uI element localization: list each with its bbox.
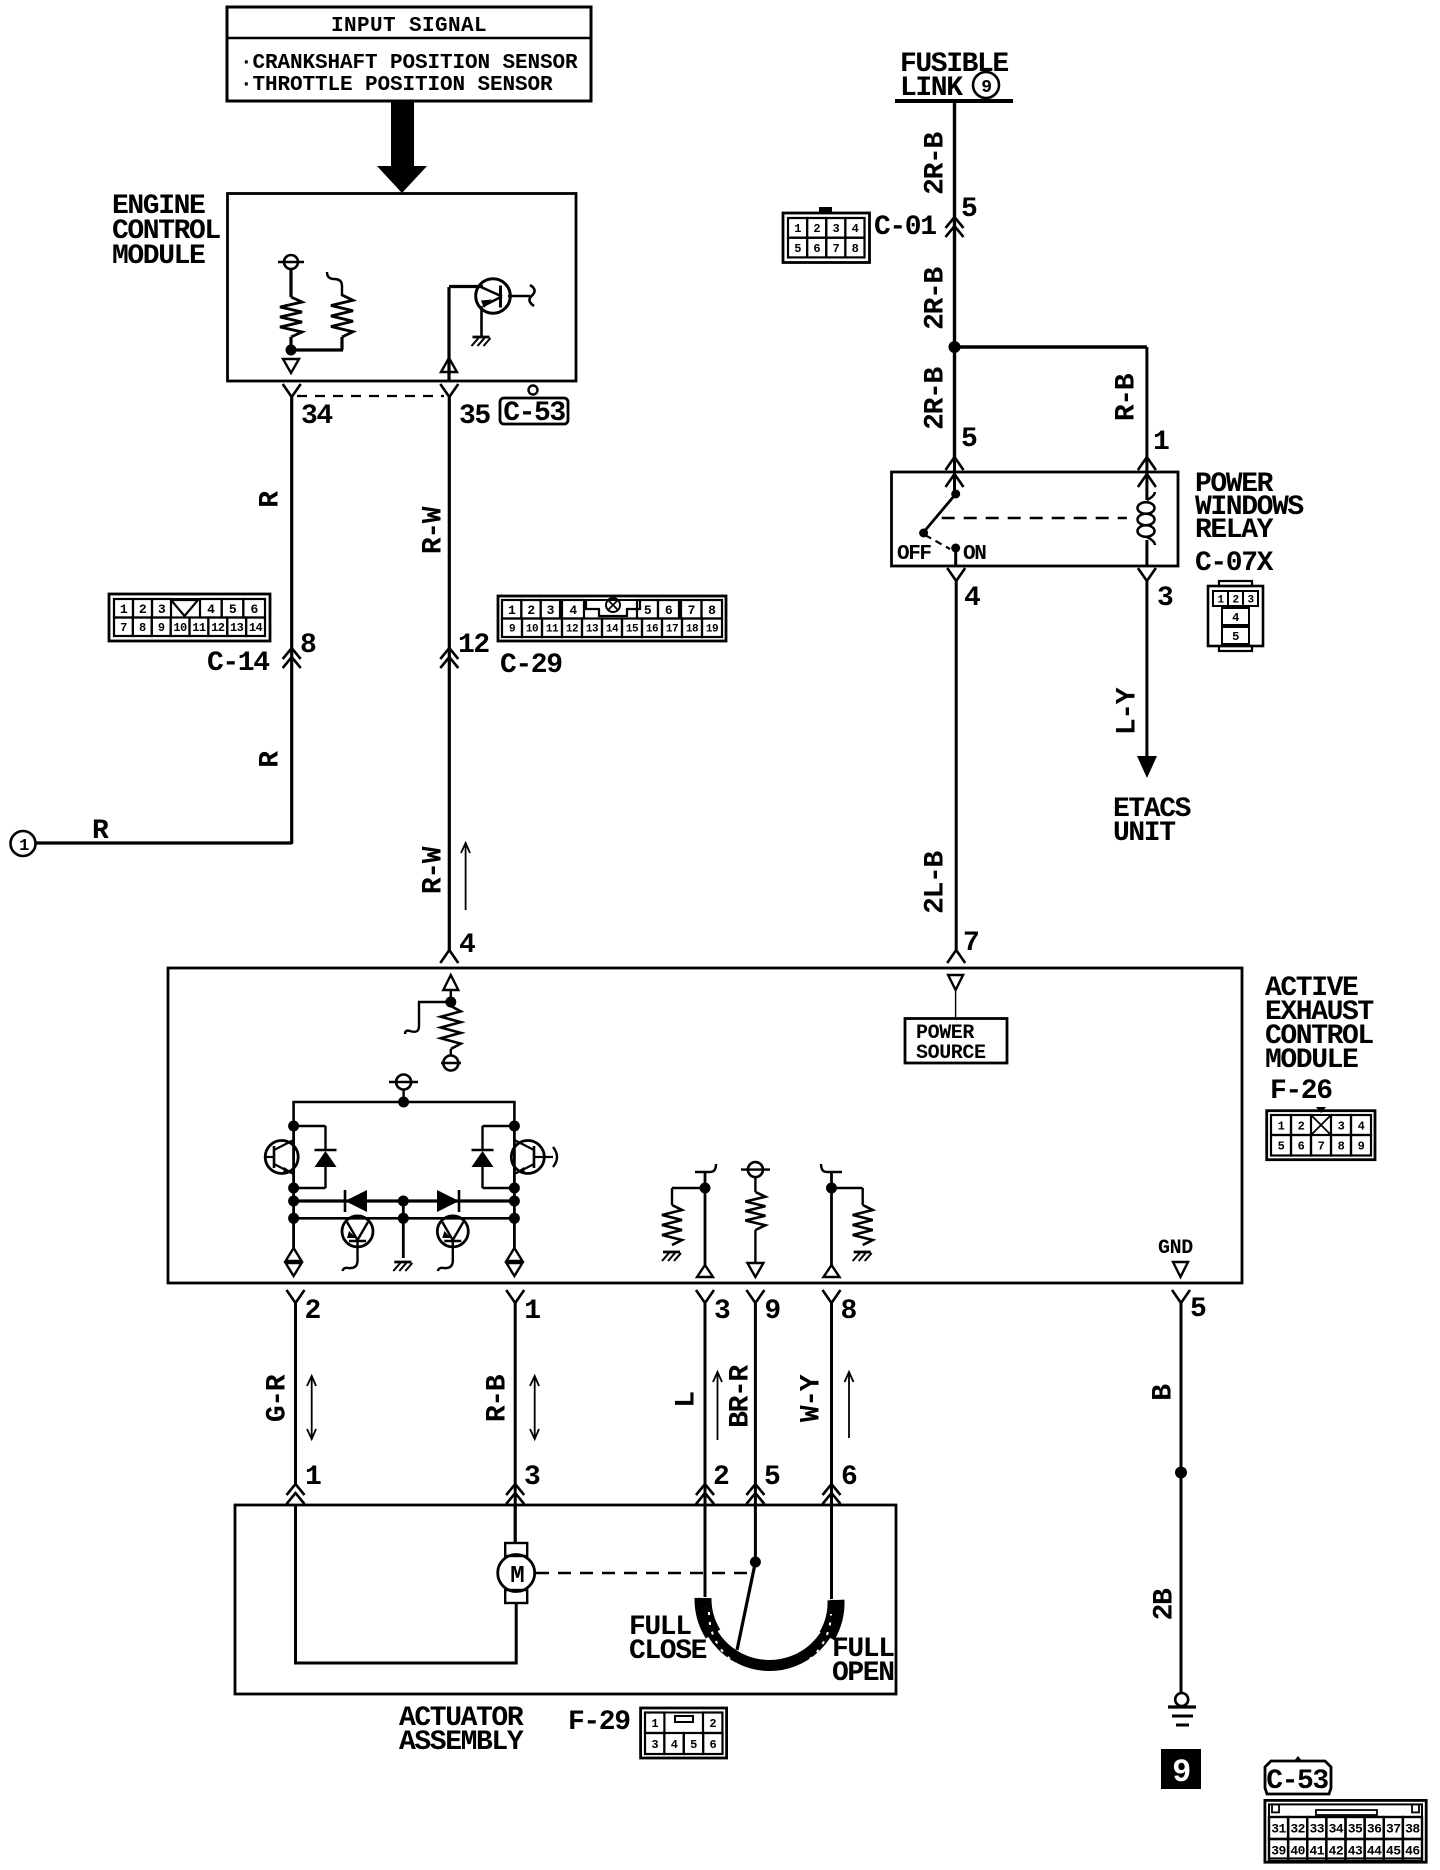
svg-text:5: 5 xyxy=(229,602,237,617)
connector badge C-53 bottom xyxy=(1265,1756,1331,1797)
svg-text:13: 13 xyxy=(586,624,599,636)
svg-text:C-07X: C-07X xyxy=(1195,548,1274,579)
double arrow G-R xyxy=(307,1376,316,1439)
svg-text:10: 10 xyxy=(526,624,538,636)
svg-text:BR-R: BR-R xyxy=(726,1365,757,1428)
svg-text:3: 3 xyxy=(832,222,839,236)
svg-text:12: 12 xyxy=(211,621,225,635)
svg-text:UNIT: UNIT xyxy=(1113,818,1175,849)
pin 5 fork into relay xyxy=(946,424,978,470)
svg-text:7: 7 xyxy=(120,621,127,635)
diode rail xyxy=(294,1199,515,1202)
svg-text:·CRANKSHAFT POSITION SENSOR: ·CRANKSHAFT POSITION SENSOR xyxy=(240,52,578,75)
svg-text:OPEN: OPEN xyxy=(832,1658,894,1689)
svg-text:1: 1 xyxy=(1217,594,1224,606)
node left mid xyxy=(288,1183,299,1194)
wire R horizontal to terminal 1 xyxy=(36,841,292,844)
wire node to ECM R2 xyxy=(289,348,343,351)
diode D2 pointing right xyxy=(437,1190,459,1212)
node right mid xyxy=(509,1183,520,1194)
pin 7 fork into AECM xyxy=(947,928,978,963)
wire up to ECM R2 xyxy=(340,337,343,350)
svg-text:8: 8 xyxy=(852,242,859,256)
svg-text:34: 34 xyxy=(1329,1822,1344,1837)
actuator pin 2 mark xyxy=(696,1462,729,1504)
svg-text:3: 3 xyxy=(714,1296,730,1327)
svg-text:M: M xyxy=(510,1563,524,1590)
node lower rail right xyxy=(509,1213,520,1224)
svg-text:ON: ON xyxy=(963,543,986,566)
svg-text:GND: GND xyxy=(1158,1237,1193,1260)
terminal circle below R1 xyxy=(441,1049,461,1071)
wire L actuator xyxy=(704,1303,707,1597)
label ACTUATOR ASSEMBLY xyxy=(399,1703,524,1758)
wire resistor to node xyxy=(289,337,292,350)
svg-text:9: 9 xyxy=(158,621,165,635)
svg-text:37: 37 xyxy=(1386,1822,1401,1837)
svg-text:4: 4 xyxy=(569,603,577,618)
connector C-01 xyxy=(783,208,870,263)
svg-text:34: 34 xyxy=(301,401,332,432)
label ETACS UNIT xyxy=(1113,794,1191,849)
wire transistor to ground xyxy=(480,306,483,336)
hook top of ECM R2 xyxy=(327,272,342,296)
svg-text:6: 6 xyxy=(813,242,820,256)
svg-text:10: 10 xyxy=(173,621,187,635)
svg-text:4: 4 xyxy=(1358,1119,1365,1133)
wire right leg xyxy=(513,1126,516,1248)
svg-text:F-29: F-29 xyxy=(568,1707,630,1738)
wire R pin34 down xyxy=(290,397,293,844)
AECM pin 8 fork xyxy=(823,1290,857,1327)
actuator pin 3 mark xyxy=(506,1462,540,1504)
big input arrow xyxy=(377,101,427,193)
svg-text:2: 2 xyxy=(709,1717,716,1731)
label GND and triangle xyxy=(1158,1237,1193,1277)
svg-text:13: 13 xyxy=(230,621,244,635)
svg-text:CLOSE: CLOSE xyxy=(629,1636,707,1667)
svg-text:36: 36 xyxy=(1367,1822,1382,1837)
connector mark C-29 pin 12 xyxy=(440,630,489,668)
svg-text:12: 12 xyxy=(458,630,489,661)
svg-text:1: 1 xyxy=(651,1717,658,1731)
svg-text:R: R xyxy=(92,816,109,847)
svg-text:RELAY: RELAY xyxy=(1195,515,1274,546)
wire B ground xyxy=(1180,1303,1183,1693)
svg-text:6: 6 xyxy=(251,602,259,617)
resistor AECM R1 xyxy=(441,1006,461,1049)
svg-text:8: 8 xyxy=(139,621,146,635)
node diode rail right xyxy=(509,1196,520,1207)
svg-text:17: 17 xyxy=(666,624,678,636)
svg-text:2R-B: 2R-B xyxy=(921,132,952,195)
wire G-R xyxy=(294,1303,297,1484)
active exhaust control module box xyxy=(168,968,1242,1283)
AECM pin 3 fork xyxy=(696,1290,730,1327)
wire W-Y actuator xyxy=(830,1303,833,1599)
dashed link pin34-pin35 xyxy=(297,395,444,397)
svg-text:2: 2 xyxy=(1232,594,1238,606)
svg-text:5: 5 xyxy=(690,1738,697,1752)
svg-text:2: 2 xyxy=(713,1462,729,1493)
ground ref 9 black box xyxy=(1162,1750,1200,1791)
dashed motor link xyxy=(536,1572,752,1574)
svg-text:15: 15 xyxy=(626,624,639,636)
svg-text:35: 35 xyxy=(1348,1822,1363,1837)
svg-text:16: 16 xyxy=(646,624,658,636)
node 2R-B branch xyxy=(949,341,961,353)
actuator pin 6 mark xyxy=(823,1462,858,1504)
AECM label xyxy=(1265,973,1373,1076)
left leg output triangles xyxy=(286,1248,302,1276)
transistor AECM QL xyxy=(265,1140,298,1174)
terminal circle 1 xyxy=(11,831,36,856)
AECM pin8 internals xyxy=(821,1164,873,1277)
node lower rail left xyxy=(288,1213,299,1224)
relay pin 4 fork xyxy=(947,568,980,614)
label FULL CLOSE xyxy=(629,1612,707,1667)
svg-text:1: 1 xyxy=(19,837,29,856)
relay pin1 inner mark xyxy=(1138,457,1156,500)
AECM pin3 internals xyxy=(662,1164,716,1277)
svg-text:F-26: F-26 xyxy=(1270,1076,1332,1107)
svg-text:9: 9 xyxy=(509,624,515,636)
connector F-29 xyxy=(641,1708,727,1758)
svg-text:9: 9 xyxy=(1172,1754,1190,1791)
svg-text:L: L xyxy=(672,1392,703,1408)
position sensor arc xyxy=(703,1598,836,1674)
motor M xyxy=(498,1543,535,1603)
svg-text:OFF: OFF xyxy=(897,543,931,566)
svg-text:4: 4 xyxy=(964,583,980,614)
svg-text:7: 7 xyxy=(832,242,839,256)
actuator assembly box xyxy=(235,1505,896,1694)
svg-text:6: 6 xyxy=(709,1738,716,1752)
svg-text:R: R xyxy=(256,751,287,768)
svg-text:4: 4 xyxy=(207,602,215,617)
AECM pin4 entry triangle xyxy=(443,975,458,990)
actuator pin 1 mark xyxy=(287,1462,322,1504)
svg-text:4: 4 xyxy=(852,222,859,236)
transistor AECM QR xyxy=(511,1140,557,1174)
svg-text:8: 8 xyxy=(1338,1140,1345,1154)
svg-text:19: 19 xyxy=(706,624,718,636)
node left upper xyxy=(288,1121,299,1132)
svg-text:5: 5 xyxy=(1278,1140,1285,1154)
svg-text:R-B: R-B xyxy=(1112,373,1143,421)
svg-text:7: 7 xyxy=(1318,1140,1325,1154)
svg-text:2B: 2B xyxy=(1150,1588,1181,1620)
svg-text:2: 2 xyxy=(813,222,820,236)
wire 2R-B from fusible link xyxy=(953,101,956,347)
pin 35 fork xyxy=(440,384,490,432)
engine control module box xyxy=(228,194,577,382)
svg-text:5: 5 xyxy=(1232,630,1239,644)
wire L-Y to ETACS with arrow xyxy=(1137,581,1157,778)
svg-text:G-R: G-R xyxy=(263,1374,294,1422)
AECM pin 9 fork xyxy=(746,1290,780,1327)
svg-text:2L-B: 2L-B xyxy=(921,851,952,914)
svg-text:44: 44 xyxy=(1367,1844,1382,1859)
node lower rail center xyxy=(398,1213,409,1224)
svg-text:5: 5 xyxy=(1190,1294,1206,1325)
arrow up L xyxy=(713,1372,722,1440)
svg-text:R-W: R-W xyxy=(419,506,450,554)
wire R-B actuator xyxy=(514,1303,517,1544)
svg-text:C-53: C-53 xyxy=(1266,1766,1328,1797)
connector mark C-14 pin 8 xyxy=(283,630,316,668)
diode D1 pointing left xyxy=(345,1190,367,1212)
ECM pin 34 triangle xyxy=(283,359,299,373)
svg-text:6: 6 xyxy=(665,603,673,618)
svg-text:33: 33 xyxy=(1310,1822,1325,1837)
wire ECM pin35 riser xyxy=(447,287,450,381)
connector C-07X xyxy=(1208,581,1263,651)
svg-text:1: 1 xyxy=(508,603,516,618)
svg-text:42: 42 xyxy=(1329,1844,1344,1859)
svg-text:2: 2 xyxy=(305,1296,321,1327)
node AECM pin4 xyxy=(445,997,456,1008)
svg-text:7: 7 xyxy=(963,928,978,959)
wire left leg xyxy=(292,1126,295,1248)
svg-text:INPUT SIGNAL: INPUT SIGNAL xyxy=(331,15,487,38)
power windows relay box xyxy=(892,472,1179,566)
svg-text:11: 11 xyxy=(546,624,559,636)
svg-text:7: 7 xyxy=(688,603,695,618)
svg-text:ASSEMBLY: ASSEMBLY xyxy=(399,1727,524,1758)
ground mark ECM xyxy=(473,336,490,339)
svg-text:40: 40 xyxy=(1290,1844,1305,1859)
double arrow R-B xyxy=(530,1376,539,1439)
relay coil xyxy=(1138,492,1155,566)
svg-text:2R-B: 2R-B xyxy=(921,367,952,430)
connector C-53 pin grid xyxy=(1265,1800,1426,1862)
relay pin5 inner mark xyxy=(946,457,964,494)
wiper arm xyxy=(737,1562,755,1650)
svg-text:L-Y: L-Y xyxy=(1113,687,1144,735)
svg-text:8: 8 xyxy=(300,630,316,661)
svg-text:3: 3 xyxy=(1157,583,1173,614)
right leg output triangles xyxy=(506,1248,522,1276)
svg-text:3: 3 xyxy=(158,602,166,617)
relay dashed link xyxy=(942,517,1127,520)
svg-text:3: 3 xyxy=(1247,594,1254,606)
hook branch left of pin4 xyxy=(405,1002,451,1034)
svg-text:32: 32 xyxy=(1290,1822,1305,1837)
wire to transistor base xyxy=(449,285,483,288)
svg-text:5: 5 xyxy=(961,424,977,455)
svg-text:1: 1 xyxy=(524,1296,540,1327)
svg-text:3: 3 xyxy=(524,1462,540,1493)
svg-text:18: 18 xyxy=(686,624,699,636)
lower rail xyxy=(294,1217,515,1220)
wire 2L-B relay pin4 down xyxy=(955,581,958,950)
wire motor loop xyxy=(296,1505,517,1663)
wire motor top xyxy=(514,1505,517,1543)
svg-text:14: 14 xyxy=(606,624,619,636)
svg-text:46: 46 xyxy=(1405,1844,1420,1859)
svg-text:1: 1 xyxy=(120,602,128,617)
svg-text:9: 9 xyxy=(764,1296,780,1327)
svg-text:2: 2 xyxy=(1298,1119,1305,1133)
node diode rail center xyxy=(398,1196,409,1207)
svg-text:43: 43 xyxy=(1348,1844,1363,1859)
svg-text:1: 1 xyxy=(1278,1119,1285,1133)
svg-text:MODULE: MODULE xyxy=(112,241,205,272)
svg-text:8: 8 xyxy=(841,1296,857,1327)
svg-text:1: 1 xyxy=(305,1462,321,1493)
svg-text:11: 11 xyxy=(192,621,206,635)
center ground arrow xyxy=(393,1201,412,1271)
svg-text:4: 4 xyxy=(1232,611,1239,625)
relay pin 3 fork xyxy=(1138,568,1173,614)
svg-text:35: 35 xyxy=(459,401,490,432)
svg-text:5: 5 xyxy=(794,242,801,256)
svg-text:8: 8 xyxy=(708,603,716,618)
svg-text:6: 6 xyxy=(1298,1140,1305,1154)
arrow up beside R-W xyxy=(461,843,470,910)
zener diode right xyxy=(472,1126,515,1188)
svg-text:·THROTTLE POSITION SENSOR: ·THROTTLE POSITION SENSOR xyxy=(240,74,553,97)
AECM pin 1 fork xyxy=(506,1290,540,1327)
H-bridge top rail xyxy=(294,1102,515,1126)
label FULL OPEN xyxy=(832,1634,894,1689)
svg-text:R-B: R-B xyxy=(483,1374,514,1422)
svg-text:5: 5 xyxy=(764,1462,780,1493)
svg-text:SOURCE: SOURCE xyxy=(916,1042,986,1065)
svg-text:R-W: R-W xyxy=(419,846,450,894)
svg-text:3: 3 xyxy=(651,1738,658,1752)
svg-text:MODULE: MODULE xyxy=(1265,1045,1358,1076)
svg-text:41: 41 xyxy=(1310,1844,1325,1859)
svg-text:R: R xyxy=(256,491,287,508)
pin 4 fork into AECM xyxy=(440,930,475,963)
pin 34 fork xyxy=(283,384,333,432)
resistor ECM R1 xyxy=(280,297,302,337)
pin 1 fork into relay xyxy=(1138,427,1169,470)
wire branch to R-B xyxy=(955,345,1147,348)
svg-text:38: 38 xyxy=(1405,1822,1420,1837)
actuator pin 5 mark xyxy=(746,1462,780,1504)
svg-text:C-14: C-14 xyxy=(207,648,269,679)
svg-text:9: 9 xyxy=(981,78,991,98)
svg-text:1: 1 xyxy=(794,222,801,236)
zener diode left xyxy=(294,1126,337,1188)
power source box xyxy=(905,1019,1007,1066)
node ground branch xyxy=(1175,1467,1187,1479)
svg-text:45: 45 xyxy=(1386,1844,1401,1859)
svg-text:12: 12 xyxy=(566,624,578,636)
svg-text:3: 3 xyxy=(547,603,555,618)
arrow up W-Y xyxy=(845,1372,854,1438)
wire 2R-B to relay xyxy=(953,347,956,458)
fusible link label xyxy=(900,49,1008,104)
svg-text:B: B xyxy=(1149,1384,1180,1401)
svg-text:C-53: C-53 xyxy=(503,398,565,429)
svg-text:4: 4 xyxy=(671,1738,678,1752)
node right upper xyxy=(509,1121,520,1132)
svg-text:W-Y: W-Y xyxy=(797,1374,828,1422)
AECM pin 5 fork xyxy=(1172,1290,1206,1325)
connector mark C-01 pin 5 xyxy=(946,194,978,237)
relay switch xyxy=(919,490,960,567)
resistor ECM R2 xyxy=(331,295,353,337)
connector badge C-53 top xyxy=(500,386,568,430)
svg-text:39: 39 xyxy=(1271,1844,1286,1859)
ECM pin 35 triangle xyxy=(441,358,457,372)
wire BR-R actuator xyxy=(754,1303,757,1562)
svg-text:5: 5 xyxy=(644,603,652,618)
svg-text:3: 3 xyxy=(1338,1119,1345,1133)
ground symbol xyxy=(1168,1693,1196,1725)
node wiper xyxy=(750,1557,761,1568)
engine control module label xyxy=(112,191,220,272)
AECM pin7 entry triangle xyxy=(948,975,963,1019)
svg-text:5: 5 xyxy=(961,194,977,225)
svg-text:4: 4 xyxy=(459,930,475,961)
svg-text:1: 1 xyxy=(1153,427,1169,458)
node H-bridge top xyxy=(398,1097,409,1108)
AECM pin 2 fork xyxy=(287,1290,321,1327)
svg-text:2: 2 xyxy=(139,602,147,617)
svg-text:6: 6 xyxy=(841,1462,857,1493)
svg-text:14: 14 xyxy=(249,621,263,635)
svg-text:2: 2 xyxy=(527,603,535,618)
AECM pin9 internals xyxy=(741,1162,770,1277)
ECM terminal circle xyxy=(278,255,304,269)
transistor AECM QA xyxy=(342,1216,373,1271)
svg-text:2R-B: 2R-B xyxy=(921,267,952,330)
input signal box xyxy=(227,7,591,101)
svg-text:C-29: C-29 xyxy=(500,650,562,681)
connector C-29 xyxy=(498,596,726,641)
connector F-26 xyxy=(1267,1107,1375,1160)
transistor AECM QB xyxy=(437,1216,468,1271)
connector C-14 xyxy=(109,594,270,641)
wire ECM terminal to resistor xyxy=(289,269,292,297)
transistor ECM Q1 xyxy=(476,279,535,314)
node ECM junction xyxy=(286,345,297,356)
node diode rail left xyxy=(288,1196,299,1207)
terminal circle H-bridge top xyxy=(389,1075,418,1090)
svg-text:C-01: C-01 xyxy=(874,212,936,243)
wire R-W pin35 down xyxy=(448,397,451,950)
svg-text:31: 31 xyxy=(1271,1822,1286,1837)
relay label xyxy=(1195,469,1303,579)
fusible link bus bar xyxy=(895,99,1013,103)
svg-text:9: 9 xyxy=(1358,1140,1365,1154)
